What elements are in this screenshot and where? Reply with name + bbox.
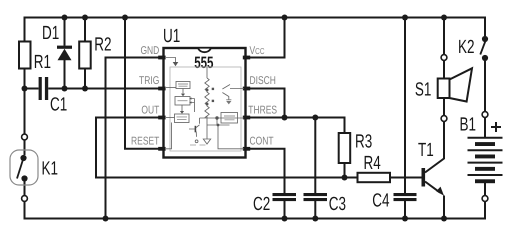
wire K1 branch <box>24 89 26 135</box>
wire OUT routing <box>96 118 358 178</box>
wire ground bottom rail <box>25 202 486 219</box>
comparator box B <box>221 113 238 124</box>
wire K2 branch <box>484 61 486 112</box>
pin stubs left <box>158 56 250 151</box>
internal gnd arrow pin1 <box>166 58 176 63</box>
svg-text:GND: GND <box>140 45 159 57</box>
wire T1 collector <box>425 121 444 172</box>
reset internal wire <box>166 123 172 149</box>
svg-text:D1: D1 <box>42 23 59 44</box>
IC U1 555 <box>158 48 250 158</box>
wire CONT pin <box>246 149 285 193</box>
out internal wire <box>166 117 175 119</box>
internal transistor right <box>222 85 244 100</box>
wire RESET from top rail <box>125 18 164 149</box>
svg-text:T1: T1 <box>418 140 434 161</box>
svg-text:K2: K2 <box>458 37 475 58</box>
capacitor C2 <box>273 193 297 201</box>
wire THRES pin <box>246 118 345 134</box>
trig internal wire <box>166 87 176 89</box>
wire C3 branch <box>314 118 316 194</box>
svg-text:OUT: OUT <box>141 105 159 117</box>
cont internal wire <box>218 125 244 149</box>
transistor ground arrow <box>226 101 231 104</box>
svg-text:DISCH: DISCH <box>250 75 276 87</box>
wire C4 branch <box>404 18 406 194</box>
wire R4 to T1 base <box>390 177 422 179</box>
wire B1 top lead <box>484 117 486 137</box>
bottom transistor <box>189 125 200 137</box>
diode D1 <box>57 46 72 61</box>
555 internal schematic <box>166 58 244 152</box>
svg-text:S1: S1 <box>415 80 432 101</box>
switch K2 <box>480 18 488 62</box>
comparator box A <box>176 82 190 89</box>
wire TRIG left segment <box>25 88 39 90</box>
internal bus y125 <box>207 124 230 126</box>
svg-text:555: 555 <box>194 54 213 72</box>
wire B1 bottom lead <box>484 183 486 196</box>
wire Vcc pin <box>246 18 285 58</box>
switch K1 <box>10 134 38 201</box>
svg-text:U1: U1 <box>163 26 180 47</box>
svg-text:C1: C1 <box>50 94 67 115</box>
divider chain resistor 3 <box>205 106 209 140</box>
svg-text:R3: R3 <box>355 132 372 153</box>
chain ground arrow <box>203 139 210 144</box>
resistor R4 <box>358 173 391 182</box>
svg-text:CONT: CONT <box>250 136 274 148</box>
wire D1 bottom <box>64 60 66 89</box>
svg-text:B1: B1 <box>460 115 477 136</box>
wire T1 emitter vertical <box>443 196 445 219</box>
svg-text:K1: K1 <box>42 159 59 180</box>
wire D1 top <box>64 18 66 46</box>
label battery plus <box>491 122 501 132</box>
transistor T1 <box>422 168 445 196</box>
capacitor C3 <box>304 193 328 201</box>
svg-text:RESET: RESET <box>131 136 159 148</box>
svg-text:R2: R2 <box>94 34 111 55</box>
output stage box <box>175 114 190 123</box>
svg-text:THRES: THRES <box>248 105 277 117</box>
svg-text:VCC: VCC <box>250 45 265 57</box>
flipflop side arrows <box>192 99 195 113</box>
resistor R2 <box>79 42 91 69</box>
wire T1 emitter diagonal <box>425 182 440 193</box>
svg-text:C3: C3 <box>329 194 346 215</box>
wire DISCH pin <box>246 89 285 118</box>
svg-text:C4: C4 <box>372 191 390 212</box>
divider chain resistor 2 <box>205 92 209 104</box>
battery B1 <box>468 112 503 202</box>
thres internal wire <box>200 118 245 125</box>
wire R2 top <box>84 18 86 42</box>
wire R1 bottom <box>24 69 26 89</box>
divider chain resistor 1 <box>205 67 209 90</box>
wire TRIG right segment <box>48 88 163 90</box>
wire GND pin to ground rail <box>106 58 164 219</box>
svg-text:R4: R4 <box>364 153 382 174</box>
svg-text:TRIG: TRIG <box>139 75 159 87</box>
capacitor C1 <box>39 77 49 100</box>
flip flop box <box>175 97 190 106</box>
wire S1 branch <box>443 18 445 55</box>
svg-text:R1: R1 <box>34 52 51 73</box>
capacitor C4 <box>394 193 417 201</box>
resistor R1 <box>19 42 31 69</box>
wire Vcc top rail <box>25 18 486 42</box>
svg-text:C2: C2 <box>253 194 270 215</box>
resistor R3 <box>339 133 351 163</box>
speaker S1 <box>438 55 472 122</box>
notch <box>198 49 211 53</box>
wire C2 bottom <box>284 201 286 219</box>
wire R3 bottom <box>344 163 346 178</box>
wire R2 bottom <box>84 69 86 89</box>
arrows between boxes <box>182 89 184 94</box>
